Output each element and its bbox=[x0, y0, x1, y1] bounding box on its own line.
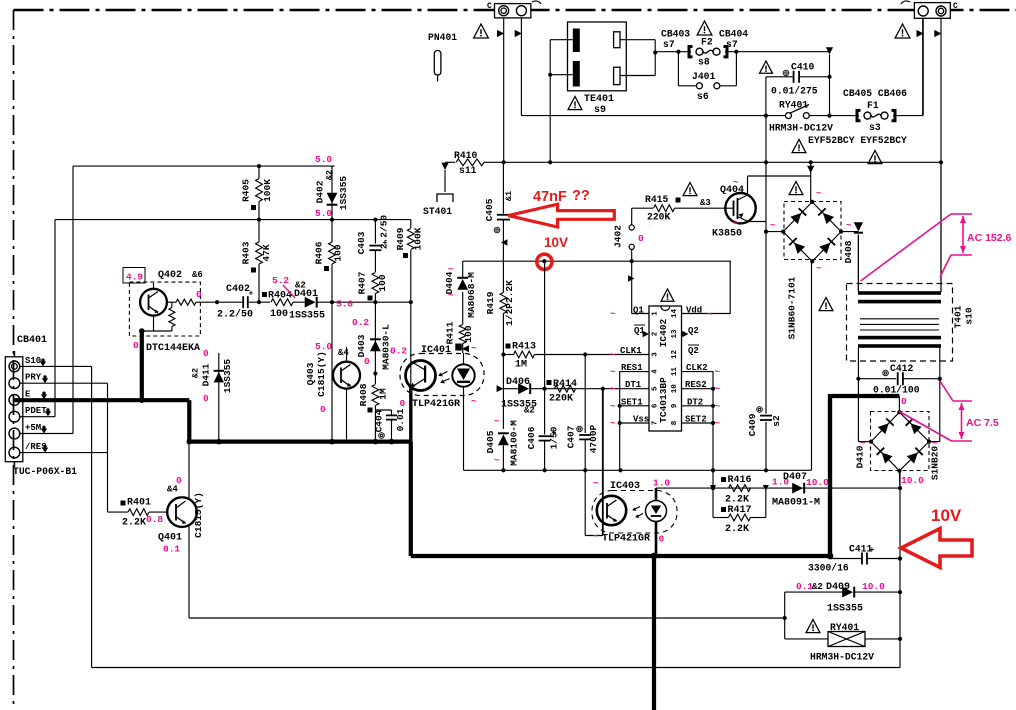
svg-text:~: ~ bbox=[932, 438, 938, 449]
svg-text:10: 10 bbox=[671, 384, 679, 394]
svg-text:&3: &3 bbox=[700, 198, 711, 208]
svg-text:~: ~ bbox=[610, 401, 616, 412]
svg-text:AC 7.5: AC 7.5 bbox=[966, 417, 999, 429]
svg-text:R419: R419 bbox=[485, 291, 496, 314]
svg-text:CLK1: CLK1 bbox=[620, 346, 642, 356]
svg-text:s2: s2 bbox=[771, 415, 782, 427]
svg-text:C: C bbox=[487, 2, 492, 11]
svg-text:PRY: PRY bbox=[25, 373, 42, 383]
svg-text:C407: C407 bbox=[566, 425, 577, 448]
svg-text:0: 0 bbox=[196, 289, 202, 300]
svg-text:1: 1 bbox=[652, 311, 660, 316]
svg-text:PDET: PDET bbox=[25, 406, 47, 416]
svg-text:ST401: ST401 bbox=[423, 206, 452, 217]
svg-text:47K: 47K bbox=[261, 244, 272, 261]
svg-text:~: ~ bbox=[471, 396, 477, 407]
svg-text:2.2/50: 2.2/50 bbox=[379, 215, 390, 250]
svg-text:s9: s9 bbox=[594, 105, 606, 116]
svg-text:5.0: 5.0 bbox=[315, 154, 332, 165]
svg-text:R416: R416 bbox=[728, 475, 752, 486]
svg-text:&6: &6 bbox=[192, 270, 203, 280]
svg-text:R401: R401 bbox=[127, 498, 151, 509]
svg-text:0.01: 0.01 bbox=[395, 408, 406, 431]
svg-text:0.1: 0.1 bbox=[163, 544, 180, 555]
svg-text:K3850: K3850 bbox=[712, 229, 742, 240]
svg-text:2.2K: 2.2K bbox=[725, 495, 749, 506]
svg-text:C1815(Y): C1815(Y) bbox=[193, 492, 204, 538]
svg-text:6: 6 bbox=[652, 403, 660, 408]
svg-text:R411: R411 bbox=[445, 321, 456, 344]
svg-text:~: ~ bbox=[770, 220, 776, 231]
svg-text:0.01/275: 0.01/275 bbox=[771, 86, 818, 97]
svg-text:2.2/50: 2.2/50 bbox=[217, 309, 253, 321]
svg-text:4.9: 4.9 bbox=[126, 272, 143, 283]
svg-text:F1: F1 bbox=[867, 100, 879, 111]
svg-text:~: ~ bbox=[448, 290, 454, 301]
svg-text:F2: F2 bbox=[701, 37, 713, 48]
svg-text:MA8068-M: MA8068-M bbox=[466, 272, 477, 318]
svg-text:IC401: IC401 bbox=[421, 345, 451, 356]
svg-text:&2: &2 bbox=[524, 406, 535, 416]
svg-text:~: ~ bbox=[610, 350, 616, 361]
svg-text:s10: s10 bbox=[964, 307, 975, 324]
svg-text:13: 13 bbox=[671, 329, 679, 339]
svg-text:C409: C409 bbox=[747, 413, 758, 436]
svg-text:R417: R417 bbox=[728, 505, 752, 516]
svg-text:C402: C402 bbox=[226, 284, 250, 295]
svg-text:8: 8 bbox=[671, 420, 679, 425]
svg-text:1M: 1M bbox=[515, 360, 527, 371]
svg-text:~: ~ bbox=[448, 264, 454, 275]
svg-text:MA8091-M: MA8091-M bbox=[772, 498, 820, 509]
svg-text:R410: R410 bbox=[454, 150, 477, 161]
svg-text:Q404: Q404 bbox=[720, 185, 744, 196]
svg-text:Q402: Q402 bbox=[158, 270, 182, 281]
svg-text:~: ~ bbox=[593, 531, 599, 542]
svg-text:CB403: CB403 bbox=[661, 29, 690, 40]
svg-text:IC402: IC402 bbox=[658, 318, 669, 347]
svg-text:7: 7 bbox=[652, 421, 660, 426]
svg-text:Q2: Q2 bbox=[688, 346, 699, 356]
svg-text:0.2: 0.2 bbox=[352, 317, 369, 328]
svg-text:TC4013BP: TC4013BP bbox=[658, 377, 669, 423]
svg-text:R406: R406 bbox=[314, 241, 325, 264]
svg-text:12: 12 bbox=[671, 350, 679, 360]
svg-text:D408: D408 bbox=[843, 240, 854, 263]
svg-text:+: + bbox=[870, 546, 875, 555]
svg-text:100: 100 bbox=[333, 244, 344, 261]
svg-text:~: ~ bbox=[846, 220, 852, 231]
svg-text:S1NB20: S1NB20 bbox=[930, 446, 941, 481]
svg-text:TE401: TE401 bbox=[584, 94, 614, 105]
svg-text:0: 0 bbox=[203, 393, 209, 404]
svg-text:100: 100 bbox=[463, 325, 474, 342]
svg-text:~: ~ bbox=[610, 367, 616, 378]
svg-text:5.0: 5.0 bbox=[315, 208, 332, 219]
svg-text:~: ~ bbox=[733, 218, 739, 229]
svg-text:220K: 220K bbox=[647, 212, 670, 223]
svg-text:C405: C405 bbox=[484, 198, 495, 221]
svg-text:220K: 220K bbox=[549, 394, 573, 405]
svg-text:1/2P2.2K: 1/2P2.2K bbox=[504, 280, 515, 326]
svg-text:s11: s11 bbox=[459, 165, 477, 176]
svg-text:TLP421GR: TLP421GR bbox=[602, 534, 650, 545]
svg-text:4: 4 bbox=[652, 369, 660, 374]
svg-text:2.2K: 2.2K bbox=[725, 524, 749, 535]
svg-text:0: 0 bbox=[659, 534, 665, 545]
svg-text:Q401: Q401 bbox=[158, 533, 182, 544]
svg-text:~: ~ bbox=[715, 418, 721, 429]
svg-text:3: 3 bbox=[652, 352, 660, 357]
svg-text:&4: &4 bbox=[338, 348, 349, 358]
svg-text:0: 0 bbox=[203, 348, 209, 359]
svg-text:~: ~ bbox=[715, 401, 721, 412]
svg-text:??: ?? bbox=[572, 188, 590, 204]
svg-text:0: 0 bbox=[133, 340, 139, 351]
svg-text:C1815(Y): C1815(Y) bbox=[316, 351, 327, 397]
svg-text:~: ~ bbox=[610, 384, 616, 395]
svg-text:s8: s8 bbox=[698, 57, 710, 68]
svg-text:4700P: 4700P bbox=[588, 424, 599, 453]
svg-text:14: 14 bbox=[671, 309, 679, 319]
svg-text:1M: 1M bbox=[378, 388, 389, 400]
svg-text:&2: &2 bbox=[325, 170, 335, 180]
svg-text:E: E bbox=[25, 389, 31, 399]
svg-text:+5M: +5M bbox=[25, 423, 41, 433]
svg-text:Q2: Q2 bbox=[688, 326, 699, 336]
svg-text:~: ~ bbox=[593, 478, 599, 489]
svg-text:R409: R409 bbox=[395, 227, 406, 250]
svg-text:10.0: 10.0 bbox=[901, 475, 924, 486]
svg-text:10V: 10V bbox=[544, 235, 568, 250]
svg-text:PN401: PN401 bbox=[428, 32, 457, 43]
svg-text:D406: D406 bbox=[506, 377, 530, 388]
svg-text:0.1: 0.1 bbox=[796, 581, 813, 592]
svg-text:0: 0 bbox=[320, 404, 326, 415]
svg-text:DT1: DT1 bbox=[625, 380, 642, 390]
svg-text:1SS355: 1SS355 bbox=[222, 359, 233, 394]
svg-text:R407: R407 bbox=[357, 271, 368, 294]
svg-text:TLP421GR: TLP421GR bbox=[412, 399, 460, 410]
svg-text:HRM3H-DC12V: HRM3H-DC12V bbox=[769, 123, 833, 134]
svg-text:C406: C406 bbox=[526, 426, 537, 449]
svg-text:&2: &2 bbox=[812, 582, 823, 592]
svg-text:C410: C410 bbox=[791, 62, 814, 73]
svg-text:0.01/100: 0.01/100 bbox=[873, 385, 920, 396]
svg-text:100K: 100K bbox=[413, 227, 424, 250]
svg-text:MA8100-M: MA8100-M bbox=[509, 420, 520, 466]
svg-text:D411: D411 bbox=[201, 363, 212, 386]
svg-text:CB401: CB401 bbox=[17, 335, 47, 346]
svg-text:HRM3H-DC12V: HRM3H-DC12V bbox=[810, 652, 874, 663]
svg-text:~: ~ bbox=[715, 384, 721, 395]
svg-text:Q403: Q403 bbox=[305, 362, 316, 385]
svg-text:R408: R408 bbox=[358, 383, 369, 406]
svg-text:1SS355: 1SS355 bbox=[338, 176, 349, 211]
svg-text:&2: &2 bbox=[191, 368, 201, 378]
svg-text:J401: J401 bbox=[692, 71, 715, 82]
svg-text:S10: S10 bbox=[25, 356, 41, 366]
svg-text:C403: C403 bbox=[356, 231, 367, 254]
svg-text:S1NB60-7101: S1NB60-7101 bbox=[787, 276, 798, 339]
svg-text:D405: D405 bbox=[485, 430, 496, 453]
svg-text:R403: R403 bbox=[241, 241, 252, 264]
svg-text:~: ~ bbox=[494, 455, 500, 466]
svg-text:0.8: 0.8 bbox=[146, 514, 163, 525]
svg-text:5.0: 5.0 bbox=[336, 299, 353, 310]
svg-text:~: ~ bbox=[471, 343, 477, 354]
svg-text:s3: s3 bbox=[869, 122, 881, 133]
svg-text:9: 9 bbox=[671, 403, 679, 408]
svg-text:5: 5 bbox=[652, 386, 660, 391]
svg-text:47nF: 47nF bbox=[533, 189, 567, 205]
svg-text:~: ~ bbox=[816, 188, 822, 199]
svg-text:EYF52BCY EYF52BCY: EYF52BCY EYF52BCY bbox=[808, 135, 907, 146]
svg-text:1SS355: 1SS355 bbox=[289, 311, 325, 322]
svg-text:0: 0 bbox=[400, 398, 406, 409]
svg-text:CB404: CB404 bbox=[719, 29, 748, 40]
svg-text:CB405 CB406: CB405 CB406 bbox=[843, 88, 907, 99]
svg-text:0: 0 bbox=[901, 396, 907, 407]
svg-text:1.0: 1.0 bbox=[653, 478, 670, 489]
svg-text:2: 2 bbox=[652, 331, 660, 336]
svg-text:&4: &4 bbox=[167, 485, 178, 495]
svg-text:D403: D403 bbox=[356, 334, 367, 357]
svg-text:1SS355: 1SS355 bbox=[827, 604, 863, 615]
svg-text:D407: D407 bbox=[783, 472, 807, 483]
svg-text:s7: s7 bbox=[663, 39, 675, 50]
svg-text:10.0: 10.0 bbox=[806, 477, 829, 488]
svg-text:TUC-P06X-B1: TUC-P06X-B1 bbox=[13, 466, 77, 477]
svg-text:100: 100 bbox=[270, 309, 288, 320]
svg-text:5.0: 5.0 bbox=[315, 341, 332, 352]
svg-text:2.2K: 2.2K bbox=[122, 518, 146, 529]
svg-text:11: 11 bbox=[671, 367, 679, 377]
svg-text:T401: T401 bbox=[953, 305, 964, 328]
svg-text:~: ~ bbox=[610, 418, 616, 429]
svg-text:100: 100 bbox=[377, 274, 388, 291]
svg-text:~: ~ bbox=[494, 416, 500, 427]
svg-text:R415: R415 bbox=[645, 194, 668, 205]
svg-text:~: ~ bbox=[860, 438, 866, 449]
svg-text:3300/16: 3300/16 bbox=[808, 563, 849, 574]
svg-text:10.0: 10.0 bbox=[862, 581, 885, 592]
svg-text:RY401: RY401 bbox=[779, 100, 808, 111]
svg-text:AC 152.6: AC 152.6 bbox=[967, 232, 1012, 244]
svg-text:DTC144EKA: DTC144EKA bbox=[146, 343, 200, 354]
svg-text:10V: 10V bbox=[931, 506, 962, 525]
svg-text:100K: 100K bbox=[262, 179, 273, 202]
svg-text:0.2: 0.2 bbox=[390, 346, 407, 357]
svg-text:&1: &1 bbox=[504, 191, 514, 201]
svg-text:C412: C412 bbox=[890, 363, 913, 374]
svg-text:R405: R405 bbox=[241, 179, 252, 202]
svg-text:~: ~ bbox=[715, 367, 721, 378]
svg-text:~: ~ bbox=[707, 309, 713, 320]
svg-text:~: ~ bbox=[733, 177, 739, 188]
svg-text:J402: J402 bbox=[613, 225, 624, 248]
svg-text:Vdd: Vdd bbox=[686, 306, 702, 316]
svg-text:5.2: 5.2 bbox=[272, 275, 289, 286]
svg-text:D402: D402 bbox=[315, 180, 326, 203]
svg-text:0: 0 bbox=[638, 233, 644, 244]
svg-text:C404: C404 bbox=[374, 409, 385, 432]
svg-text:~: ~ bbox=[816, 263, 822, 274]
svg-text:~: ~ bbox=[610, 309, 616, 320]
svg-text:1/50: 1/50 bbox=[549, 426, 560, 449]
svg-text:s6: s6 bbox=[697, 91, 709, 102]
svg-text:C: C bbox=[953, 2, 958, 11]
